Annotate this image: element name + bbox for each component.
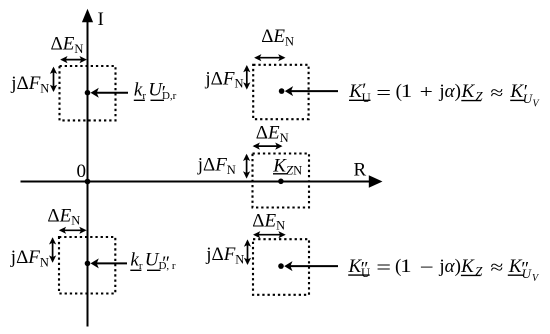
svg-text:=: = (376, 83, 391, 104)
svg-text:U: U (522, 266, 533, 281)
span arrow j&#916;F_N (top-left) (50, 67, 57, 92)
label k_r U&#8242;_D,r (134, 80, 177, 104)
span arrow j&#916;F_N (middle) (243, 154, 250, 179)
span arrow &#916;E_N (bottom-right) (253, 231, 286, 238)
label k_r U&#8243;_D,r (130, 250, 176, 275)
axis I (imaginary axis) (82, 9, 93, 327)
svg-text:1: 1 (400, 256, 412, 277)
svg-text:K: K (461, 81, 476, 102)
svg-text:≈: ≈ (490, 83, 503, 104)
formula K&#8242;_U = (1 + j&#945;)K_Z &#8776; K&#8242;_UV (348, 80, 540, 109)
svg-text:1: 1 (401, 81, 413, 102)
svg-text:jα): jα) (438, 81, 461, 102)
svg-text:jα): jα) (438, 256, 461, 277)
span arrow j&#916;F_N (bottom-left) (49, 237, 56, 263)
svg-text:0: 0 (77, 161, 87, 182)
svg-text:U: U (361, 266, 370, 280)
pointer arrow to k_r*U&#8242;_D,r (91, 88, 129, 98)
svg-text:I: I (98, 9, 104, 30)
tolerance box of k_r*U&#8242;_D,r (60, 66, 116, 120)
svg-text:″: ″ (162, 253, 170, 274)
span arrow &#916;E_N (middle) (253, 143, 283, 150)
svg-text:U: U (362, 91, 371, 105)
pointer arrow to K&#8242;_U (285, 86, 338, 96)
label K_ZN (272, 155, 302, 177)
origin point (85, 179, 91, 185)
span arrow j&#916;F_N (bottom-right) (244, 239, 251, 265)
point K&#8242;_U (279, 88, 285, 94)
svg-text:=: = (376, 258, 391, 279)
tolerance box of K&#8242;_U (253, 65, 308, 119)
span arrow j&#916;F_N (top-right) (243, 65, 250, 90)
svg-text:R: R (354, 160, 367, 181)
span arrow &#916;E_N (top-right) (254, 54, 285, 61)
span arrow &#916;E_N (top-left) (60, 56, 87, 63)
svg-text:K: K (460, 256, 475, 277)
svg-text:≈: ≈ (490, 258, 503, 279)
pointer arrow to K&#8243;_U (284, 261, 338, 271)
pointer arrow to k_r*U&#8243;_D,r (91, 258, 128, 268)
svg-text:−: − (420, 258, 434, 279)
tolerance box of K_ZN (253, 154, 310, 208)
tolerance box of k_r*U&#8243;_D,r (59, 237, 115, 294)
point k_r*U&#8243;_D,r (85, 261, 91, 267)
formula K&#8243;_U = (1 - j&#945;)K_Z &#8776; K&#8243;_UV (348, 256, 541, 284)
span arrow &#916;E_N (bottom-left) (59, 227, 87, 234)
tolerance box of K&#8243;_U (253, 239, 309, 295)
point K&#8243;_U (278, 263, 284, 269)
point K_ZN (278, 179, 284, 185)
axis R (real axis) (21, 175, 383, 187)
point k_r*U&#8242;_D,r (85, 90, 91, 96)
svg-text:+: + (420, 82, 433, 103)
